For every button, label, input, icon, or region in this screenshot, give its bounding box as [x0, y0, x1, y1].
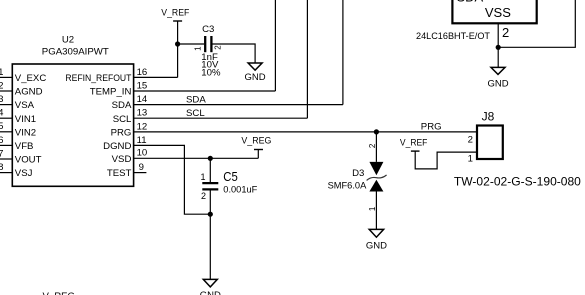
- wire pin5 VIN2: [0, 131, 12, 133]
- diode D3 TVS bar (wavy): [367, 175, 387, 181]
- svg-text:PRG: PRG: [421, 122, 442, 133]
- wire V_REF to J8 pin1 (s-bend): [415, 151, 476, 169]
- svg-text:VSJ: VSJ: [15, 168, 33, 179]
- wire pin12 PRG: [134, 131, 476, 133]
- svg-text:14: 14: [137, 94, 148, 105]
- svg-text:U2: U2: [62, 35, 74, 46]
- svg-text:V_REG: V_REG: [43, 291, 76, 295]
- wire pin13 SCL: [134, 117, 307, 119]
- wire C5 bottom to gnd: [209, 191, 211, 280]
- wire TEMP_IN riser: [274, 0, 276, 91]
- capacitor C5 plates: [202, 182, 218, 184]
- svg-text:GND: GND: [245, 72, 266, 83]
- svg-text:PRG: PRG: [111, 128, 132, 139]
- svg-text:GND: GND: [200, 290, 221, 295]
- wire V_REF stub down to pin16: [177, 21, 179, 77]
- EEPROM U? 24LC16BHT-E/OT body (cut at top): [452, 0, 536, 23]
- svg-text:SDA: SDA: [112, 100, 132, 111]
- svg-text:16: 16: [137, 67, 148, 78]
- svg-text:SCL: SCL: [186, 108, 205, 119]
- wire D3 top: [375, 132, 377, 162]
- diode D3 lower triangle: [369, 180, 383, 192]
- svg-text:VFB: VFB: [15, 141, 34, 152]
- svg-text:VIN1: VIN1: [15, 114, 36, 125]
- wire pin14 SDA: [134, 104, 343, 106]
- svg-text:10%: 10%: [201, 67, 221, 78]
- svg-text:D3: D3: [352, 168, 364, 179]
- svg-text:15: 15: [137, 80, 148, 91]
- svg-text:C5: C5: [223, 169, 238, 184]
- ground (C5): [200, 279, 221, 295]
- svg-text:V_EXC: V_EXC: [15, 73, 47, 84]
- wire pin16 REFIN_REFOUT: [134, 76, 178, 78]
- svg-text:J8: J8: [482, 109, 495, 123]
- op-amp U2 PGA309AIPWT body: [12, 64, 133, 186]
- svg-text:2: 2: [0, 80, 3, 91]
- ground (24LC16): [487, 67, 508, 89]
- wire pin3 VSA: [0, 104, 12, 106]
- svg-text:0.001uF: 0.001uF: [223, 184, 257, 195]
- svg-text:6: 6: [0, 135, 3, 146]
- svg-text:DGND: DGND: [103, 141, 131, 152]
- node junction V_REF/C3: [175, 41, 180, 46]
- svg-text:VOUT: VOUT: [15, 155, 42, 166]
- ground (D3): [366, 229, 387, 251]
- wire pin15 TEMP_IN: [134, 90, 275, 92]
- svg-text:REFIN_REFOUT: REFIN_REFOUT: [65, 73, 131, 84]
- svg-text:V_REF: V_REF: [400, 137, 428, 148]
- wire pin8 VSJ: [0, 172, 12, 174]
- svg-text:1: 1: [193, 46, 202, 51]
- svg-text:SMF6.0A: SMF6.0A: [328, 181, 367, 192]
- svg-text:12: 12: [137, 121, 148, 132]
- connector J8 body: [477, 126, 503, 160]
- svg-text:7: 7: [0, 148, 3, 159]
- capacitor C3 plates: [204, 36, 206, 52]
- wire C3 right plate to gnd corner: [213, 44, 256, 63]
- svg-text:24LC16BHT-E/OT: 24LC16BHT-E/OT: [416, 31, 490, 42]
- svg-text:8: 8: [0, 162, 3, 173]
- wire pin11 DGND: [134, 145, 210, 214]
- svg-text:3: 3: [0, 94, 3, 105]
- svg-text:VSA: VSA: [15, 100, 35, 111]
- svg-text:SDA: SDA: [457, 0, 484, 4]
- svg-text:GND: GND: [366, 240, 387, 251]
- node junction PRG/D3: [374, 129, 379, 134]
- node junction C5/DGND: [208, 212, 213, 217]
- svg-text:GND: GND: [487, 79, 508, 90]
- wire SCL riser: [306, 0, 308, 118]
- svg-text:VIN2: VIN2: [15, 127, 36, 138]
- wire pin2 AGND: [0, 90, 12, 92]
- svg-text:1: 1: [468, 153, 473, 164]
- svg-text:TEST: TEST: [107, 168, 132, 179]
- svg-text:PGA309AIPWT: PGA309AIPWT: [42, 47, 109, 58]
- svg-text:13: 13: [137, 108, 148, 119]
- svg-text:V_REF: V_REF: [161, 7, 189, 18]
- wire C5 top: [209, 158, 211, 182]
- svg-text:C3: C3: [202, 24, 214, 35]
- wire pin9 TEST stub: [134, 172, 146, 174]
- diode D3 upper triangle: [369, 162, 383, 175]
- wire from right edge: [498, 0, 575, 47]
- wire D3 bottom: [375, 192, 377, 230]
- svg-text:10: 10: [137, 148, 148, 159]
- wire pin10 VSD: [134, 157, 258, 159]
- svg-text:VSD: VSD: [112, 154, 132, 165]
- svg-text:1: 1: [200, 172, 205, 182]
- svg-text:SCL: SCL: [113, 114, 132, 125]
- V_REF net tick: [411, 150, 420, 152]
- wire pin1 V_EXC: [0, 76, 12, 78]
- svg-text:1: 1: [368, 206, 377, 211]
- svg-text:SDA: SDA: [186, 94, 206, 105]
- wire VSS pin 2 down: [497, 23, 499, 67]
- svg-text:2: 2: [468, 134, 473, 145]
- V_REF net tick: [173, 20, 182, 22]
- svg-text:TEMP_IN: TEMP_IN: [90, 87, 132, 98]
- wire SDA riser: [342, 0, 344, 105]
- svg-text:V_REG: V_REG: [241, 136, 271, 147]
- wire to C3 left plate: [178, 43, 205, 45]
- svg-text:AGND: AGND: [15, 87, 43, 98]
- wire pin7 VOUT: [0, 158, 12, 160]
- svg-text:2: 2: [368, 143, 377, 148]
- svg-text:TW-02-02-G-S-190-080: TW-02-02-G-S-190-080: [454, 175, 581, 189]
- wire V_REG stub to pin10 wire: [257, 150, 259, 159]
- wire pin6 VFB: [0, 144, 12, 146]
- wire pin4 VIN1: [0, 117, 12, 119]
- V_REG net tick: [254, 149, 263, 151]
- svg-text:11: 11: [137, 135, 147, 146]
- ground (C3): [245, 63, 266, 83]
- svg-text:VSS: VSS: [485, 5, 511, 20]
- node junction pin10/C5: [208, 156, 213, 161]
- svg-text:2: 2: [201, 191, 206, 201]
- svg-text:5: 5: [0, 121, 3, 132]
- svg-text:1: 1: [0, 67, 3, 78]
- svg-text:9: 9: [139, 162, 144, 173]
- svg-text:2: 2: [213, 45, 222, 50]
- node junction VSS/GND: [496, 45, 501, 50]
- svg-text:2: 2: [502, 25, 509, 40]
